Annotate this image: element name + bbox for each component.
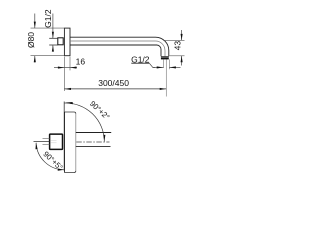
dimension Ø80 extension lines xyxy=(31,27,65,29)
square connector (bottom view) xyxy=(50,134,63,149)
stub axis leg xyxy=(34,141,50,143)
G1/2 threaded stub xyxy=(49,37,58,39)
dimension 16 extension lines xyxy=(63,57,65,91)
svg-text:43: 43 xyxy=(172,41,182,51)
dimension Ø80 line and arrows xyxy=(34,14,36,29)
tube (bottom view) xyxy=(76,132,111,134)
tube centerline (dashed) xyxy=(76,141,109,143)
svg-text:Ø80: Ø80 xyxy=(26,32,36,48)
extension lines below nozzle xyxy=(163,59,165,68)
wire tube top edge xyxy=(70,37,169,56)
arc 90°+2° xyxy=(65,103,105,141)
dimension 16 line and arrows xyxy=(54,67,64,69)
dimension 300/450 line and arrows xyxy=(64,88,166,90)
flange (wall escutcheon, side view) xyxy=(64,28,70,56)
dimension 43 line and arrows xyxy=(181,30,183,40)
square connector xyxy=(58,38,63,45)
svg-text:G1/2: G1/2 xyxy=(43,9,53,28)
svg-text:300/450: 300/450 xyxy=(98,78,129,88)
dimension 43 extension lines xyxy=(165,39,185,41)
svg-text:16: 16 xyxy=(76,56,86,66)
flange (front/bottom view) xyxy=(64,112,75,114)
dimension G1/2 (inlet) line and arrows xyxy=(52,14,54,39)
nozzle thread band xyxy=(161,56,169,57)
wire tube bottom edge xyxy=(70,45,161,56)
wall line xyxy=(63,102,65,171)
arc 90°+5° xyxy=(36,143,64,170)
wire tube middle line xyxy=(70,41,165,56)
stub (bottom view) xyxy=(43,138,50,140)
dimension G1/2 outlet arrows xyxy=(153,66,164,68)
